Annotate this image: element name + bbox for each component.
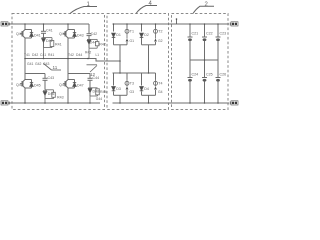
diode D43 (body diode of Q42) [68,30,76,39]
diode D44 (snubber) [87,40,91,49]
capacitor C24 [188,60,193,103]
leader line for label 2 [193,6,214,13]
svg-text:D4: D4 [144,87,149,91]
svg-text:D1: D1 [116,33,121,37]
svg-text:C41: C41 [46,29,53,33]
switch T2 [154,29,158,42]
capacitor C25 [202,60,207,103]
diode D47 (body diode of Q44) [68,80,76,89]
svg-text:T41: T41 [24,53,30,57]
svg-text:D3: D3 [116,87,121,91]
dashed box 2 (right capacitor block) [172,14,229,110]
svg-text:D41: D41 [34,34,41,38]
diode D3 [112,87,116,91]
wires box 4 [113,24,156,103]
capacitor C21 [188,24,193,60]
resistor R42 [89,39,99,58]
svg-text:D42: D42 [32,53,38,57]
svg-text:D44: D44 [76,53,82,57]
capacitor C41 [41,24,46,38]
svg-text:C41: C41 [40,53,46,57]
switch T3 [125,80,129,90]
junction dots box 1 [24,23,91,104]
svg-text:G2: G2 [158,39,163,43]
svg-text:T3: T3 [130,82,134,86]
svg-text:Q42: Q42 [59,32,66,36]
resistor R41 [44,38,54,59]
transistor Q42 [63,24,68,59]
diode D4 [140,87,144,91]
svg-text:T2: T2 [158,30,162,34]
svg-text:R43: R43 [57,96,64,100]
svg-text:R42: R42 [99,42,106,46]
capacitor C44 [88,74,93,88]
transistor Q41 [20,24,25,59]
svg-text:C25: C25 [206,73,213,77]
dashed box 4 (middle clamp block) [107,14,169,110]
svg-text:C24: C24 [192,73,199,77]
node L marker [176,18,178,24]
capacitor C23 [216,24,221,60]
leader line for label 1 [70,7,97,14]
svg-text:G1: G1 [130,39,135,43]
svg-text:C23: C23 [220,32,227,36]
svg-text:C26: C26 [220,73,227,77]
svg-text:D43: D43 [77,34,84,38]
svg-text:G42: G42 [35,62,42,66]
transistor Q44 [63,59,90,104]
wire: top bus of box 4 and box 2 to AC terminal [113,23,230,25]
capacitor C42 [87,24,92,39]
leader label 12 [87,65,98,72]
leader label 11 [44,64,62,71]
svg-text:T4: T4 [158,82,162,86]
capacitor C43 [43,74,48,90]
resistor R43 [45,90,55,103]
svg-text:G3: G3 [130,90,135,94]
svg-text:Q43: Q43 [16,83,23,87]
svg-text:R41: R41 [55,43,62,47]
capacitor C26 [216,60,221,103]
svg-text:R44: R44 [100,90,107,94]
svg-text:Q44: Q44 [59,83,66,87]
svg-text:11: 11 [53,65,58,70]
wire: bottom bus of box 4 and box 2 [113,102,230,104]
terminal output bottom right [230,101,238,105]
svg-text:D2: D2 [144,33,149,37]
diode D42 (snubber) [42,38,46,48]
wire: DC- bottom bus of box 1 [9,102,100,104]
svg-text:T42: T42 [68,53,74,57]
svg-text:Q41: Q41 [16,32,23,36]
terminal output top right [230,22,238,26]
wire: mid phase bus of box 1 [25,59,120,62]
svg-text:L1: L1 [96,53,100,57]
svg-text:G44: G44 [96,97,102,101]
diode D1 [112,33,116,37]
svg-text:G4: G4 [158,90,163,94]
diode D45 (body diode of Q43) [25,80,33,89]
junction dots box 4 [113,23,157,104]
svg-text:R41: R41 [48,53,54,57]
dashed box 1 (left converter block) [12,14,105,110]
switch T4 [154,80,158,90]
switch T1 [125,29,129,42]
diode D48 (snubber) [88,88,92,96]
svg-text:R42: R42 [85,51,91,55]
capacitor C22 [202,24,207,60]
svg-text:C42: C42 [91,32,98,36]
transistor Q43 [20,59,45,104]
svg-text:D45: D45 [34,84,41,88]
svg-text:C43: C43 [48,76,55,80]
svg-text:D47: D47 [77,84,84,88]
leader line for label 4 [136,6,157,14]
svg-text:C44: C44 [93,76,100,80]
svg-text:C21: C21 [192,32,199,36]
resistor R44 [90,88,99,103]
diode D41 (body diode of Q41) [25,30,33,39]
wire: mid rail box 2 [190,59,218,61]
svg-text:T1: T1 [130,30,134,34]
svg-text:C22: C22 [206,32,213,36]
svg-text:G41: G41 [27,62,34,66]
wire: DC+ input bus (top bus of box 1) [9,23,89,25]
terminal DC- [1,101,10,105]
diode D2 [140,33,144,37]
junction dots box 2 [189,23,219,104]
diode D46 (snubber) [43,91,47,99]
terminal DC+ [1,22,10,26]
